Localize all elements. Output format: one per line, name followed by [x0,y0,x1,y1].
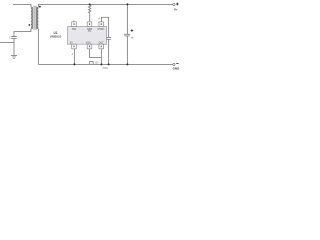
svg-text:103: 103 [95,61,100,64]
svg-text:TC: TC [88,30,92,33]
svg-text:OUT: OUT [98,41,104,44]
svg-text:5V: 5V [70,41,73,44]
svg-text:VSS: VSS [86,41,91,44]
svg-text:(WB910: (WB910 [50,35,61,39]
svg-text:4: 4 [99,17,101,20]
svg-text:V+: V+ [174,7,178,11]
svg-text:2: 2 [72,52,74,56]
svg-text:GND: GND [173,66,181,70]
svg-text:SHDN: SHDN [97,28,104,31]
svg-text:GND: GND [103,67,109,70]
svg-text:BW: BW [72,28,77,31]
